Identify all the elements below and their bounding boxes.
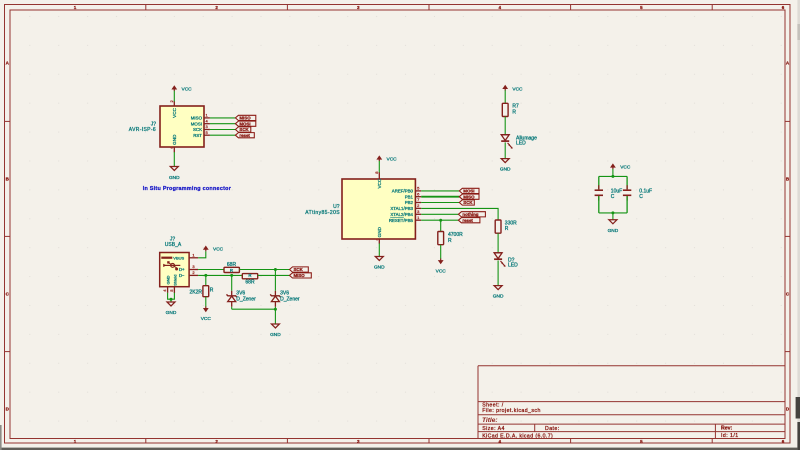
wire D+ junction to zener2: [274, 270, 276, 291]
global label MOSI (MCU): [459, 188, 479, 193]
svg-text:D_Zener: D_Zener: [280, 297, 300, 303]
ground (zeners): [270, 324, 281, 338]
global label MISO (USB): [290, 273, 312, 278]
wire 330R to LED D?: [497, 233, 499, 253]
junction bottom rail GND: [611, 211, 614, 214]
svg-text:GND: GND: [166, 310, 177, 316]
svg-text:MOSI: MOSI: [191, 121, 202, 126]
svg-text:KiCad E.D.A. kicad (6.0.7): KiCad E.D.A. kicad (6.0.7): [482, 433, 553, 439]
global label reset (MCU): [458, 218, 480, 223]
svg-text:2K2R: 2K2R: [189, 289, 202, 295]
wire D- junction to 2K2R: [205, 275, 207, 285]
J? USB pin names: [166, 256, 185, 286]
global label MOSI: [235, 121, 255, 126]
wire PB2 to SCK: [421, 202, 459, 204]
svg-text:Size: A4: Size: A4: [482, 426, 505, 432]
wire VCC stub to top rail: [612, 169, 614, 177]
wire 68R to SCK label: [239, 269, 289, 271]
ground (decoupling): [608, 220, 619, 234]
wire bottom rail: [599, 212, 627, 214]
resistor 330R: [495, 220, 517, 233]
wire reset junction to 4700R: [440, 220, 442, 231]
resistor 68R (D-): [242, 273, 257, 285]
svg-text:MISO: MISO: [191, 116, 203, 121]
svg-text:VCC: VCC: [182, 86, 193, 92]
svg-text:GND: GND: [166, 276, 171, 285]
svg-text:Rev:: Rev:: [721, 426, 733, 432]
global label SCK: [235, 127, 250, 132]
resistor 4700R: [438, 232, 463, 245]
J? USB pin numbers: [162, 252, 195, 291]
power VCC (pull-up, downward): [436, 259, 447, 275]
wire top rail: [599, 175, 627, 177]
capacitor C 0.1uF: [623, 176, 652, 213]
svg-text:VCC: VCC: [172, 107, 177, 117]
ground (ISP): [169, 167, 180, 182]
svg-text:R: R: [505, 226, 509, 232]
svg-text:D_Zener: D_Zener: [236, 297, 256, 303]
wire XTAL2/PB4 to nothing: [421, 213, 458, 215]
svg-text:68R: 68R: [245, 280, 255, 286]
svg-text:GND: GND: [172, 134, 177, 145]
wire LED Allumage to GND: [504, 142, 506, 158]
svg-text:R: R: [512, 109, 516, 115]
svg-text:nothing: nothing: [462, 212, 478, 217]
svg-text:SCK: SCK: [239, 127, 249, 132]
wire GND stub: [612, 213, 614, 220]
wire USB GND/Shield to ground: [168, 293, 175, 302]
power VCC (MCU): [376, 155, 397, 162]
svg-text:C: C: [639, 194, 643, 200]
junction D+/zener2: [274, 268, 277, 271]
svg-text:AREF/PB0: AREF/PB0: [392, 189, 414, 194]
U? pin names: [377, 178, 413, 237]
wire VCC to U? pin 8: [378, 161, 380, 173]
capacitor C 10uF: [595, 176, 623, 213]
svg-text:VBUS: VBUS: [173, 256, 184, 261]
wire rail to GND: [274, 309, 276, 324]
svg-text:RESET/PB5: RESET/PB5: [389, 218, 414, 223]
junction top rail VCC: [611, 175, 614, 178]
global label reset: [235, 133, 254, 138]
svg-text:MOSI: MOSI: [239, 121, 250, 126]
svg-text:LED: LED: [508, 263, 518, 269]
wire zener1 to bottom rail: [231, 307, 233, 309]
svg-text:SCK: SCK: [193, 127, 202, 132]
svg-text:reset: reset: [239, 133, 250, 138]
global label SCK (MCU): [459, 200, 474, 205]
wire VCC to R7: [504, 90, 506, 103]
global label MISO: [235, 115, 255, 120]
IC U? ATtiny85-20S: [342, 172, 421, 243]
svg-text:GND: GND: [377, 226, 382, 237]
LED Allumage: [501, 135, 537, 149]
global label nothing: [458, 212, 485, 217]
zener D_Zener 3V6 (D-): [227, 290, 257, 306]
svg-text:GND: GND: [270, 332, 281, 338]
wire D+ to 68R: [198, 269, 224, 271]
svg-text:VCC: VCC: [213, 247, 224, 253]
svg-text:XTAL2/PB4: XTAL2/PB4: [390, 212, 413, 217]
svg-text:GND: GND: [500, 166, 511, 172]
global label SCK (USB): [290, 267, 309, 272]
svg-text:GND: GND: [374, 265, 385, 271]
resistor 2K2R: [189, 286, 213, 297]
svg-text:LED: LED: [516, 141, 526, 147]
J? pin numbers: [169, 100, 209, 149]
junction D-/zener1: [230, 274, 233, 277]
svg-text:GND: GND: [493, 294, 504, 300]
ground (USB): [166, 302, 177, 316]
svg-text:PB1: PB1: [405, 194, 414, 199]
svg-text:GND: GND: [169, 175, 180, 181]
junction D-/2K2R: [204, 274, 207, 277]
svg-text:SCK: SCK: [463, 200, 473, 205]
ground (Allumage): [500, 159, 511, 173]
wire zener bottom rail: [232, 308, 276, 310]
wire MOSI: [210, 123, 236, 125]
wire D- junction to zener1: [231, 275, 233, 290]
wire VBUS to VCC: [198, 251, 206, 258]
svg-text:VCC: VCC: [387, 156, 398, 162]
svg-text:Shield: Shield: [173, 275, 178, 286]
LED D?: [494, 253, 518, 269]
svg-text:MISO: MISO: [294, 273, 306, 278]
junction USB shield tie: [170, 298, 173, 301]
wire J? pin 6 to GND: [173, 152, 175, 166]
svg-text:D−: D−: [179, 273, 185, 278]
svg-text:MOSI: MOSI: [463, 188, 474, 193]
wire R7 to LED Allumage: [504, 117, 506, 135]
wire zener2 to bottom rail: [274, 307, 276, 309]
svg-text:Title:: Title:: [482, 417, 498, 424]
power VCC (decoupling): [610, 163, 631, 170]
J? pin names: [172, 107, 202, 144]
svg-text:XTAL1/PB3: XTAL1/PB3: [390, 206, 413, 211]
svg-text:3V6: 3V6: [236, 290, 245, 296]
svg-text:D+: D+: [179, 267, 185, 272]
svg-text:GND: GND: [608, 228, 619, 234]
wire 4700R to VCC: [440, 245, 442, 259]
power VCC (2K2R, downward): [201, 306, 212, 322]
wire PB1 to MISO: [421, 196, 459, 198]
svg-text:AVR-ISP-6: AVR-ISP-6: [129, 127, 156, 133]
svg-text:C: C: [611, 194, 615, 200]
wire RST: [210, 134, 236, 136]
connector J? USB_A: [160, 253, 198, 294]
wire XTAL1/PB3 to 330R: [421, 208, 498, 220]
U? pin numbers: [374, 171, 420, 241]
svg-text:MISO: MISO: [463, 194, 475, 199]
power VCC (VBUS): [203, 246, 224, 253]
svg-text:VCC: VCC: [201, 316, 212, 322]
svg-text:Id: 1/1: Id: 1/1: [721, 433, 739, 439]
wire 68R to MISO label: [258, 274, 290, 276]
junction reset/4700R: [439, 219, 442, 222]
svg-text:R: R: [248, 273, 251, 278]
svg-text:VCC: VCC: [436, 268, 447, 274]
svg-text:PB2: PB2: [405, 200, 414, 205]
resistor 68R (D+): [224, 262, 239, 273]
svg-text:R: R: [448, 238, 452, 244]
svg-text:VCC: VCC: [620, 165, 631, 171]
svg-text:Date:: Date:: [545, 426, 560, 432]
svg-text:VCC: VCC: [377, 178, 382, 188]
svg-text:RST: RST: [193, 133, 202, 138]
ground (LED D?): [493, 286, 504, 300]
svg-text:VCC: VCC: [512, 86, 523, 92]
power VCC (R7): [502, 85, 523, 93]
svg-text:reset: reset: [462, 218, 473, 223]
svg-text:3V6: 3V6: [280, 290, 289, 296]
power VCC (ISP): [171, 85, 192, 92]
junction zener rail / GND: [274, 308, 277, 311]
resistor R7: [502, 103, 519, 116]
wire VCC to J? pin 2: [173, 91, 175, 102]
wire LED D? to GND: [497, 261, 499, 286]
ground (MCU): [374, 257, 385, 271]
svg-text:R: R: [230, 268, 233, 273]
zener D_Zener 3V6 (D+): [270, 290, 300, 306]
wire RESET/PB5 to reset: [421, 219, 458, 221]
wire PB0 to MOSI: [421, 190, 459, 192]
wire 2K2R to VCC: [205, 297, 207, 307]
svg-text:R: R: [210, 287, 214, 293]
svg-text:USB_A: USB_A: [165, 242, 182, 248]
wire U? pin 4 to GND: [378, 243, 380, 256]
svg-text:SCK: SCK: [294, 267, 304, 272]
connector J? AVR-ISP-6: [160, 101, 210, 152]
wire MISO: [210, 117, 236, 119]
global label MISO (MCU): [459, 194, 479, 199]
svg-text:MISO: MISO: [239, 115, 251, 120]
wire D- to 68R: [198, 274, 242, 276]
svg-text:File: projet.kicad_sch: File: projet.kicad_sch: [482, 408, 541, 414]
svg-text:In Situ Programming connector: In Situ Programming connector: [143, 186, 232, 192]
svg-text:ATtiny85-20S: ATtiny85-20S: [305, 210, 340, 216]
wire SCK: [210, 129, 236, 131]
